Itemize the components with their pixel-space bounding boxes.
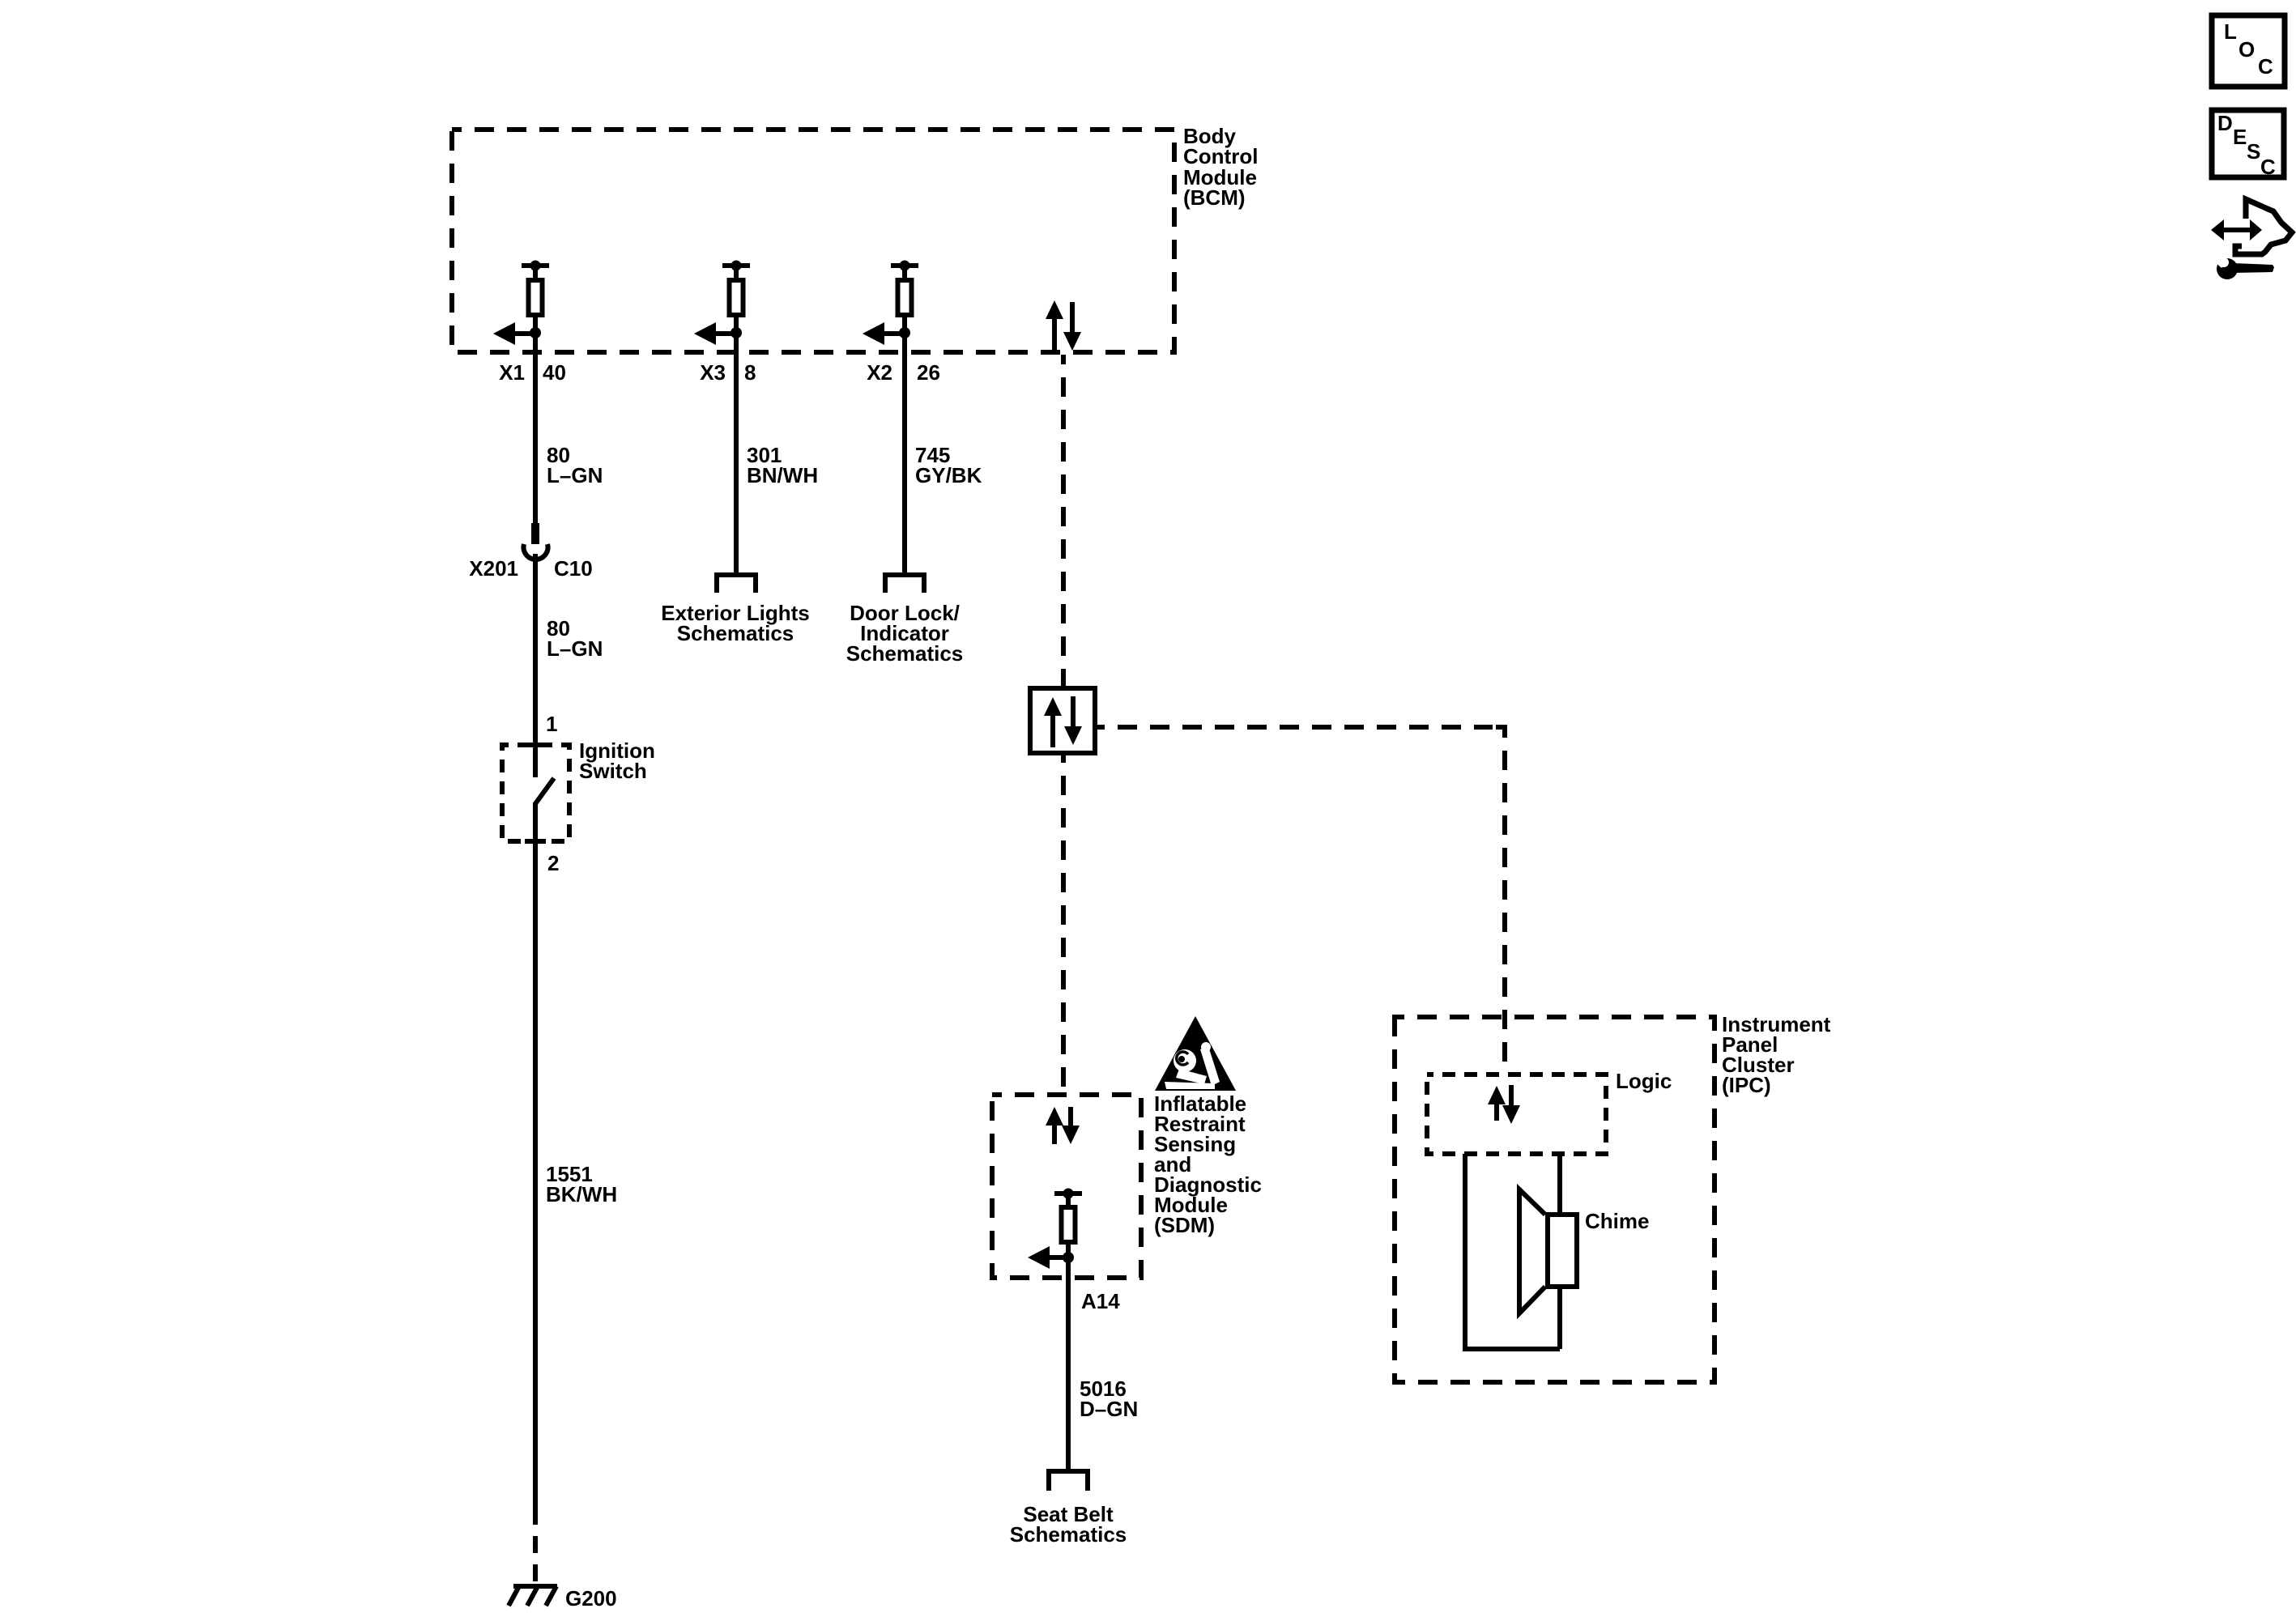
label X201 C10 (469, 556, 592, 581)
BCM driver X2-26: supply bar node (891, 261, 918, 281)
off-page connector Door Lock (885, 575, 924, 593)
ground G200 symbol (509, 1586, 557, 1606)
serial data dashed wire splice to IPC (horizontal) (1095, 725, 1493, 730)
serial data corner elbow (1496, 727, 1505, 738)
pin labels X2 26 (867, 360, 940, 385)
label Ignition Switch (579, 738, 655, 783)
chime loop wire right lower (1557, 1284, 1562, 1349)
pin labels X1 40 (499, 360, 566, 385)
pin labels X3 8 (700, 360, 756, 385)
svg-text:C10: C10 (554, 556, 593, 581)
svg-text:Seat BeltSchematics: Seat BeltSchematics (1010, 1502, 1127, 1547)
resistor (BCM X3-8 internal) (730, 280, 743, 315)
svg-text:X201: X201 (469, 556, 518, 581)
ignition switch box (502, 745, 569, 841)
serial data dashed wire down to IPC logic (1502, 751, 1507, 1074)
pin label 1 (546, 712, 557, 736)
svg-text:G200: G200 (565, 1586, 617, 1611)
svg-text:26: 26 (917, 360, 940, 385)
node junction dot X1 output (530, 327, 541, 338)
DESC legend icon box (2212, 110, 2284, 179)
resistor (BCM X1-40 internal) (529, 280, 543, 315)
node junction dot SDM output (1063, 1252, 1074, 1263)
SRS warning triangle (1155, 1016, 1236, 1091)
label wire 1551 BK/WH (546, 1162, 617, 1206)
serial data dashed wire BCM to splice box (1061, 355, 1066, 688)
chime loop wire bottom (1463, 1347, 1560, 1351)
label Exterior Lights Schematics (661, 601, 809, 645)
module box SDM (992, 1095, 1141, 1278)
svg-text:O: O (2238, 37, 2255, 62)
wire ignition switch to ground (1551 BK/WH) (533, 841, 538, 1508)
resistor (BCM X2-26 internal) (898, 280, 912, 315)
svg-text:X2: X2 (867, 360, 892, 385)
svg-text:Exterior LightsSchematics: Exterior LightsSchematics (661, 601, 809, 645)
label Door Lock/Indicator Schematics (846, 601, 964, 666)
wire SDM to off-page (5016 D-GN) (1066, 1257, 1071, 1471)
chime speaker cone (1519, 1189, 1545, 1313)
off-page connector Exterior Lights (717, 575, 756, 593)
label wire 5016 D-GN (1080, 1377, 1138, 1421)
SDM serial arrows (1046, 1107, 1080, 1144)
chime loop wire left (1463, 1154, 1467, 1349)
label Logic (1616, 1069, 1672, 1093)
connector X201 C10 (pin and socket) (524, 523, 548, 560)
SDM driver A14: supply bar node (1054, 1189, 1082, 1208)
svg-text:2: 2 (547, 851, 559, 875)
svg-text:Door Lock/IndicatorSchematics: Door Lock/IndicatorSchematics (846, 601, 964, 666)
chime loop wire right upper (1557, 1154, 1562, 1217)
svg-text:E: E (2233, 125, 2247, 149)
label G200 (565, 1586, 617, 1611)
chime speaker driver rect (1548, 1215, 1577, 1287)
driver output arrow (X3) (694, 322, 736, 345)
label wire 80 L-GN (upper) (547, 443, 603, 487)
wire X1 40 to connector X201 (533, 333, 538, 524)
label Instrument Panel Cluster (IPC) (1722, 1012, 1831, 1097)
wire resistor to junction (X2) (902, 315, 907, 329)
wire X3 8 to off-page (734, 333, 739, 575)
wire resistor to junction (SDM) (1066, 1242, 1071, 1253)
serial data dashed wire splice to SDM (1061, 753, 1066, 1095)
svg-text:X1: X1 (499, 360, 525, 385)
ignition switch contact bars (525, 745, 546, 841)
label Chime (1585, 1209, 1649, 1233)
resistor (SDM internal) (1062, 1207, 1076, 1242)
svg-text:1: 1 (546, 712, 557, 736)
label wire 301 BN/WH (747, 443, 818, 487)
BCM serial data arrows (1046, 300, 1081, 351)
LOC legend icon box (2212, 15, 2285, 87)
wire resistor to junction (X3) (734, 315, 739, 329)
IPC logic box (1427, 1074, 1606, 1154)
svg-text:D: D (2217, 111, 2233, 135)
driver output arrow (X1) (493, 322, 535, 345)
svg-text:8: 8 (744, 360, 756, 385)
pin label A14 (1081, 1289, 1120, 1313)
svg-text:L: L (2224, 19, 2237, 44)
driver output arrow (SDM) (1028, 1246, 1068, 1269)
svg-text:IgnitionSwitch: IgnitionSwitch (579, 738, 655, 783)
label Seat Belt Schematics (1010, 1502, 1127, 1547)
svg-text:C: C (2258, 54, 2273, 79)
svg-text:Logic: Logic (1616, 1069, 1672, 1093)
driver output arrow (X2) (863, 322, 905, 345)
BCM driver X3-8: supply bar node (722, 261, 750, 281)
label wire 745 GY/BK (915, 443, 982, 487)
connector-repair legend icon (double arrow, connector body, wrench) (2211, 199, 2292, 279)
ignition switch blade (535, 778, 554, 841)
module box BCM (Body Control Module) (452, 130, 1174, 352)
wire X2 26 to off-page (902, 333, 907, 575)
svg-text:40: 40 (543, 360, 566, 385)
node junction dot X2 output (899, 327, 910, 338)
BCM driver X1-40: supply bar node (522, 261, 549, 281)
off-page connector Seat Belt (1049, 1471, 1088, 1491)
node junction dot X3 output (731, 327, 742, 338)
pin label 2 (547, 851, 559, 875)
wire connector to ignition switch (533, 554, 538, 777)
svg-text:X3: X3 (700, 360, 726, 385)
svg-text:Chime: Chime (1585, 1209, 1649, 1233)
splice box serial arrows (1044, 696, 1082, 747)
dashed wire segment to ground (533, 1508, 538, 1586)
logic serial arrows (1488, 1085, 1520, 1124)
svg-text:S: S (2247, 139, 2260, 164)
label wire 80 L-GN (lower) (547, 616, 603, 661)
serial data splice box (1030, 688, 1095, 753)
svg-text:C: C (2260, 155, 2276, 179)
module box IPC (Instrument Panel Cluster) (1395, 1017, 1715, 1382)
svg-text:A14: A14 (1081, 1289, 1120, 1313)
label Inflatable Restraint Sensing and Diagnostic Module (SDM) (1154, 1091, 1262, 1237)
wire resistor to junction (X1) (533, 315, 538, 329)
label Body Control Module (BCM) (1183, 124, 1258, 210)
